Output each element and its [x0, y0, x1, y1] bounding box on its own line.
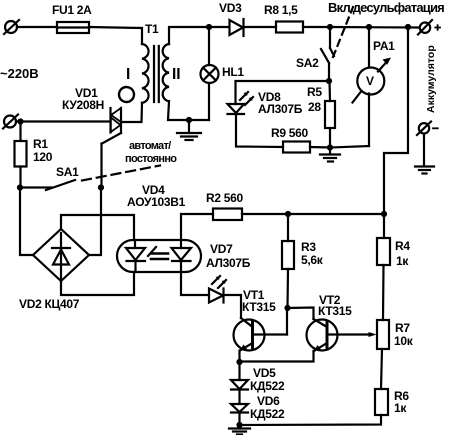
svg-text:VD7: VD7	[210, 242, 233, 256]
svg-text:КД522: КД522	[250, 379, 285, 393]
svg-text:HL1: HL1	[222, 65, 244, 79]
label minus	[433, 127, 438, 129]
node SA2 bottom	[326, 78, 332, 84]
potentiometer R7	[377, 320, 389, 389]
svg-text:Аккумулятор: Аккумулятор	[425, 45, 437, 113]
transistor VT1	[234, 318, 288, 351]
svg-text:VD3: VD3	[219, 1, 242, 15]
svg-text:T1: T1	[145, 22, 159, 36]
node secondary ground	[186, 117, 192, 123]
node battery column top	[381, 211, 387, 217]
wire left AC	[17, 120, 111, 122]
svg-text:R4: R4	[395, 239, 410, 253]
T1 primary winding I	[142, 44, 149, 103]
wire SA2 to VD8	[236, 81, 330, 104]
diode VD3	[230, 19, 277, 36]
svg-text:V: V	[366, 74, 374, 88]
terminal X1 ~220V top	[4, 20, 19, 34]
wire bridge plus to opto	[61, 215, 134, 240]
resistor R9	[283, 142, 330, 153]
switch SA2	[321, 7, 353, 81]
svg-text:28: 28	[308, 100, 321, 114]
svg-text:~220В: ~220В	[0, 66, 39, 81]
svg-text:I: I	[126, 66, 130, 83]
ground secondary	[177, 120, 201, 140]
svg-text:R3: R3	[301, 240, 316, 254]
node R3 top	[285, 211, 291, 217]
node junction R1 top	[17, 118, 23, 124]
lamp HL1	[201, 27, 219, 120]
T1 secondary winding II	[163, 44, 169, 101]
svg-text:R8 1,5: R8 1,5	[264, 3, 298, 17]
transformer T1	[142, 44, 169, 103]
gate wire VD1	[102, 133, 122, 188]
fuse FU1	[57, 22, 89, 33]
terminal X2 ~220V bottom	[3, 115, 18, 129]
svg-text:автомат/: автомат/	[129, 140, 171, 152]
switch SA1	[20, 166, 160, 191]
wire VD8 to R9	[236, 114, 283, 147]
svg-text:КД522: КД522	[250, 407, 285, 421]
wire VT1 emitter	[238, 351, 240, 363]
transistor VT2	[307, 319, 377, 351]
svg-text:R9 560: R9 560	[271, 126, 309, 140]
svg-text:10к: 10к	[394, 334, 414, 348]
resistor R1	[15, 122, 27, 188]
wire battery plus column	[384, 27, 408, 214]
label plus	[435, 27, 440, 29]
svg-text:120: 120	[33, 150, 53, 164]
wire VT2 emitter	[240, 351, 314, 362]
wire minus to ground	[423, 134, 425, 166]
svg-text:КУ208Н: КУ208Н	[62, 98, 104, 112]
node PA1 top	[366, 24, 372, 30]
ground battery minus	[415, 167, 434, 174]
resistor R4	[377, 214, 390, 320]
resistor R3	[282, 214, 294, 308]
ground bottom center	[229, 425, 250, 435]
diode VD6	[231, 390, 248, 426]
wire bridge AC left	[20, 188, 33, 256]
wire VD7 to VT1 collector	[224, 295, 242, 318]
node ground bottom	[236, 422, 242, 428]
node SA1 right / gate	[98, 184, 104, 190]
diode VD5	[231, 362, 248, 390]
circle marker near VD1	[119, 87, 134, 102]
terminal battery minus	[417, 122, 431, 136]
svg-text:Вкл.десульфатация: Вкл.десульфатация	[328, 0, 444, 15]
svg-text:R2 560: R2 560	[206, 191, 244, 205]
triac VD1	[111, 108, 122, 133]
wire R2 to R4 column	[242, 213, 384, 215]
svg-text:FU1 2A: FU1 2A	[52, 3, 92, 17]
wire VT2 collector	[288, 308, 314, 320]
wire VT1 base up	[286, 308, 288, 335]
LED VD7	[209, 276, 226, 303]
node R5 bottom	[327, 144, 333, 150]
terminal battery plus	[418, 20, 432, 35]
svg-text:АЛ307Б: АЛ307Б	[206, 256, 251, 270]
node battery plus	[405, 24, 411, 30]
svg-text:АОУ103В1: АОУ103В1	[127, 195, 186, 209]
wire top right	[330, 26, 418, 29]
svg-text:VD2 КЦ407: VD2 КЦ407	[19, 297, 80, 311]
wire opto anode to R2	[181, 214, 213, 240]
wire bridge AC right	[89, 188, 101, 256]
optocoupler U1 AOU103V1	[117, 240, 201, 272]
svg-text:SA1: SA1	[56, 165, 79, 179]
svg-text:PA1: PA1	[373, 39, 395, 53]
svg-text:R5: R5	[307, 85, 322, 99]
svg-text:АЛ307Б: АЛ307Б	[258, 102, 303, 116]
wire primary bottom	[122, 103, 143, 122]
svg-text:5,6к: 5,6к	[301, 253, 324, 267]
ground R5	[320, 148, 340, 162]
voltmeter PA1	[330, 27, 391, 148]
svg-text:VD6: VD6	[257, 394, 280, 408]
svg-text:VD5: VD5	[253, 366, 276, 380]
LED VD8	[228, 92, 254, 114]
node emitters	[236, 359, 242, 365]
svg-text:1к: 1к	[394, 401, 407, 415]
svg-text:R1: R1	[33, 137, 48, 151]
svg-text:КТ315: КТ315	[318, 304, 352, 318]
svg-text:КТ315: КТ315	[242, 300, 276, 314]
T1 core	[153, 46, 155, 102]
wire secondary bottom	[168, 101, 209, 120]
node HL1 top	[206, 24, 212, 30]
svg-text:II: II	[172, 66, 181, 83]
resistor R5	[325, 81, 335, 148]
svg-text:R7: R7	[395, 321, 410, 335]
wire opto cathode to VD7	[181, 272, 209, 295]
wire	[17, 26, 57, 28]
resistor R8	[276, 22, 330, 33]
node VT1 base R3	[284, 305, 290, 311]
svg-text:1к: 1к	[396, 254, 409, 268]
svg-text:SA2: SA2	[296, 56, 319, 70]
wire	[89, 27, 142, 44]
bridge rectifier VD2	[33, 229, 89, 282]
svg-text:постоянно: постоянно	[125, 153, 177, 165]
wire secondary top	[169, 27, 229, 44]
resistor R6	[240, 389, 389, 425]
node SA2 top	[327, 24, 333, 30]
resistor R2	[213, 209, 242, 221]
wire bridge minus to opto	[61, 272, 134, 295]
node SA1 left	[17, 184, 23, 190]
